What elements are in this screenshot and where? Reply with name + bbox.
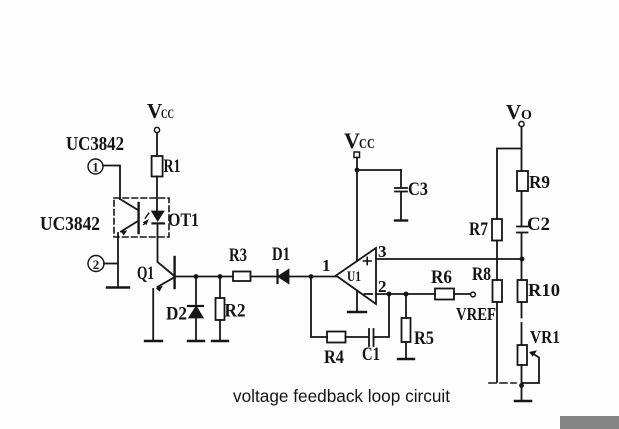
node Vcc terminal square [354,152,360,158]
ground (Q1 emitter) [145,340,162,342]
resistor R6 [431,267,454,300]
resistor R7 [469,219,502,241]
resistor R8 [472,264,502,302]
ground (bottom right) [515,400,531,403]
node junction pin3/column [520,257,525,262]
node Vo label [506,100,532,124]
svg-text:R1: R1 [164,156,181,177]
svg-text:R2: R2 [225,301,246,322]
svg-text:CC: CC [359,137,375,152]
svg-text:VREF: VREF [456,304,496,324]
wire Vo down to R9 [521,127,523,171]
diode D1 [278,270,289,283]
node junction D2 [194,274,199,279]
svg-text:V: V [506,100,521,124]
phototransistor (inside OT1) [120,199,139,236]
ground (opto emitter) [107,286,129,288]
wire pin2 to R6 [376,293,435,295]
wire R3 to D1 [251,276,278,278]
svg-text:VR1: VR1 [530,327,560,347]
wire Q1 base to R3 [176,276,234,278]
wire Q1 emitter down [152,289,154,340]
capacitor C2 [517,214,550,235]
node junction pin1/R4 [309,274,314,279]
wire pin1 to optocoupler collector [103,166,120,200]
ground (R5) [398,358,414,360]
node VREF terminal [471,292,476,297]
ground (D2) [188,340,204,342]
svg-text:R4: R4 [324,347,344,368]
resistor R4 [324,332,346,369]
node pin 1 circle [88,159,103,175]
svg-text:R5: R5 [414,328,434,349]
wire R1 to LED [156,177,158,213]
resistor R9 [517,171,550,192]
ground (C3) [395,219,407,221]
node junction bottom [519,383,524,388]
node junction pin2/C1 [387,292,392,297]
resistor R3 [229,245,251,281]
wire C1 up to pin2 [374,294,389,337]
wire op-amp pin3 to right column [376,258,522,260]
svg-text:R6: R6 [431,267,452,288]
op-amp U1 [336,248,376,304]
node junction Vcc/C3 [355,168,360,173]
wire R4 to C1 [346,336,369,338]
svg-text:1: 1 [92,160,99,175]
wire D1 to op-amp pin1 [289,276,337,278]
optocoupler OT1 dashed box [114,198,169,237]
wire pin2 to emitter line [104,263,118,265]
svg-text:C2: C2 [527,214,550,235]
transistor Q1 [156,257,175,292]
wire Vcc junction to C3 [357,169,401,171]
wire C2 down to pin3 junction and R10 [521,233,523,280]
svg-text:D2: D2 [166,304,187,325]
node Vo terminal [519,121,524,126]
plus sign (pin3 input) [364,257,372,264]
svg-text:V: V [344,128,360,153]
grey bar bottom right [560,416,619,429]
svg-text:voltage feedback loop circuit: voltage feedback loop circuit [233,386,450,406]
minus sign (pin2 input) [365,293,373,295]
svg-text:R10: R10 [528,280,560,300]
wire feedback loop down from pin1 node [311,277,327,338]
wire Vcc down to op-amp [356,158,358,262]
ground (R2) [212,340,228,342]
wire R8 down to bottom [496,302,498,382]
svg-text:R7: R7 [469,219,488,240]
svg-text:V: V [147,99,162,123]
potentiometer VR1 [518,327,561,383]
capacitor C1 [362,329,380,365]
svg-text:Q1: Q1 [137,263,154,284]
wire Vcc to R1 [156,133,158,156]
node Vcc left terminal [154,127,159,132]
wire R7 to R8 [496,241,498,281]
svg-text:U1: U1 [347,269,361,285]
wire R6 to VREF terminal [454,293,470,295]
svg-text:C1: C1 [362,344,380,365]
node junction R5 [404,292,409,297]
diode D2 (zener) [188,277,203,341]
wire R10 to VR1 (broken) [521,302,523,318]
svg-text:R9: R9 [529,172,550,192]
node junction R2 [218,274,223,279]
svg-text:2: 2 [93,257,100,272]
svg-text:C3: C3 [408,179,428,200]
resistor R10 [518,280,561,302]
LED (inside OT1) [152,212,164,224]
svg-text:O: O [521,108,532,123]
svg-text:UC3842: UC3842 [40,213,100,235]
node pin 2 circle [88,256,104,272]
resistor R5 [402,294,435,358]
wire LED cathode to Q1 collector [158,224,174,275]
wire VR1 to ground [521,365,523,400]
svg-text:CC: CC [161,106,174,121]
svg-text:1: 1 [322,256,331,275]
node Vcc (left supply) label [147,99,174,123]
wire dashed bottom link [489,382,516,384]
resistor R1 [152,156,181,177]
wire R9 to C2 [521,191,523,226]
node Vcc (op-amp supply) label [344,128,375,153]
svg-text:UC3842: UC3842 [66,133,124,155]
svg-text:R3: R3 [229,245,247,266]
wire emitter down to ground bar [117,233,119,287]
wire branch to R7 [497,149,522,220]
svg-text:D1: D1 [272,244,290,265]
ground (op-amp) [348,291,366,313]
light arrow (LED to transistor) [143,213,149,225]
capacitor C3 [395,170,407,220]
svg-text:OT1: OT1 [168,210,199,231]
svg-text:R8: R8 [472,264,491,285]
resistor R2 [216,277,225,341]
